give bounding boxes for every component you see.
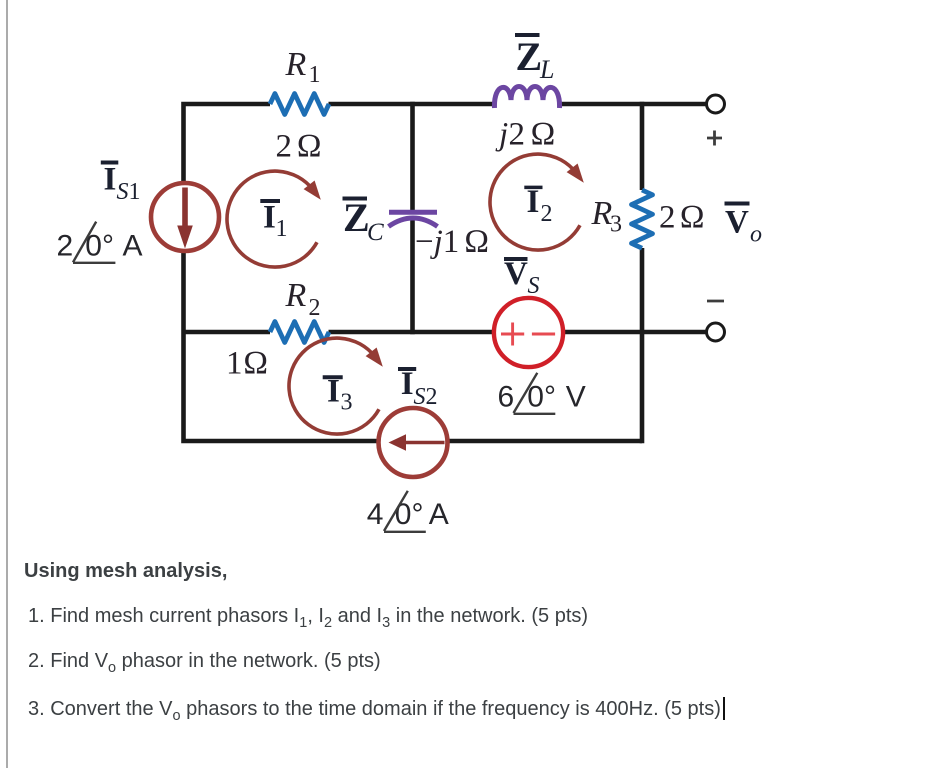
left gray table border [6,0,8,768]
svg-text:C: C [367,219,384,246]
wire: middle horizontal right of R2 to terminal [329,330,708,335]
wire: middle vertical below capacitor [410,218,415,335]
svg-text:2: 2 [309,295,321,321]
resistor R2 [270,322,329,343]
svg-text:−j1: −j1 [415,224,459,260]
svg-text:1: 1 [309,62,321,88]
svg-text:1: 1 [276,216,288,242]
resistor R3 [632,190,653,248]
svg-text:Z: Z [516,34,543,79]
svg-text:L: L [539,55,554,84]
svg-text:2: 2 [276,129,293,165]
svg-text:Ω: Ω [680,200,705,236]
VS plus sign [501,323,524,346]
wire: R3 branch lower + right vertical down to bottom wire [640,248,645,443]
svg-text:V: V [725,205,749,241]
svg-text:2: 2 [57,230,74,263]
IS1 arrow [182,188,188,229]
svg-text:o: o [750,222,762,248]
svg-text:V: V [504,256,528,292]
svg-text:Ω: Ω [297,129,322,165]
arrowhead of mesh loop I2 [567,164,584,183]
circuit figure [0,0,936,560]
IS2 arrow [404,441,445,445]
VS minus sign [532,333,555,336]
terminal bottom right [707,323,725,341]
svg-text:0°: 0° [395,498,424,531]
wire: outer left loop (top-left, left side, bottom, right-bottom vertical) [184,104,643,441]
current source IS2 [379,408,448,477]
svg-text:1: 1 [226,346,243,382]
arrowhead of mesh loop I1 [304,181,321,200]
wire: middle vertical above capacitor [410,102,415,210]
svg-text:Ω: Ω [243,346,268,382]
capacitor ZC bottom plate (curved) [389,218,438,227]
svg-text:2: 2 [509,117,526,153]
resistor R1 [270,94,329,115]
mesh current loop I2 [490,154,580,250]
svg-text:2: 2 [659,200,676,236]
svg-text:R: R [285,277,307,314]
svg-text:V: V [566,380,586,413]
wire: R3 branch upper [640,102,645,190]
svg-text:3: 3 [610,212,622,238]
svg-text:3: 3 [341,390,353,416]
svg-text:I: I [401,366,414,402]
wire: middle horizontal left of R2 [184,330,271,335]
svg-text:j: j [495,117,508,153]
svg-text:6: 6 [498,380,515,413]
mesh current loop I1 [227,171,317,267]
svg-text:I: I [104,162,117,198]
terminal top right [707,95,725,113]
svg-text:0°: 0° [527,380,556,413]
capacitor ZC top plate [389,210,437,215]
svg-text:Z: Z [343,195,370,240]
arrowhead of mesh loop I3 [366,348,383,367]
svg-text:S: S [528,273,540,299]
wire: top right segment to terminal [560,102,708,107]
current source IS1 [151,183,219,251]
svg-text:Ω: Ω [464,224,489,260]
svg-text:A: A [123,230,143,263]
plus mark at output [707,131,722,146]
svg-text:A: A [429,498,449,531]
svg-text:S1: S1 [117,179,141,205]
svg-text:4: 4 [367,498,384,531]
svg-text:S2: S2 [414,384,438,410]
voltage source VS [494,298,563,367]
inductor ZL [494,87,559,109]
minus mark at output [707,300,724,303]
mesh current loop I3 [289,338,379,434]
svg-text:I: I [527,184,540,220]
svg-text:2: 2 [541,201,553,227]
svg-text:R: R [285,46,307,83]
question text [24,560,227,583]
svg-text:Ω: Ω [530,117,555,153]
svg-text:I: I [263,200,276,236]
wire: top middle segment between R1 and ZL [329,102,495,107]
